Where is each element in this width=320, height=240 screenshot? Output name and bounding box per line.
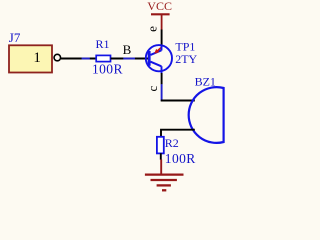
ground stem [160, 159, 162, 174]
wire collector down (black part) [161, 73, 163, 84]
ground bar 4 [162, 189, 166, 191]
svg-text:e: e [145, 26, 160, 32]
svg-text:100R: 100R [165, 151, 196, 166]
transistor TP1 base bar [148, 51, 151, 66]
wire segment (blue) left of R1 [82, 58, 90, 60]
ground bar 2 [151, 179, 177, 181]
svg-text:J7: J7 [9, 30, 21, 45]
svg-text:2TY: 2TY [175, 52, 197, 66]
transistor TP1 collector diagonal [151, 62, 162, 67]
power port VCC bar [151, 13, 170, 15]
wire R2 to ground [160, 153, 162, 160]
buzzer BZ1 body [189, 87, 224, 143]
resistor R2 body [157, 137, 164, 154]
svg-text:VCC: VCC [147, 0, 172, 13]
wire collector down (blue part) [161, 84, 163, 101]
transistor TP1 emitter pin stub [161, 44, 163, 50]
svg-text:c: c [145, 86, 160, 92]
transistor TP1 emitter arrow (PNP, red) [157, 48, 161, 51]
resistor R1 body [96, 55, 110, 61]
svg-text:R1: R1 [96, 37, 110, 51]
ground bar 3 [157, 184, 171, 186]
transistor collector pin stub [161, 66, 163, 73]
svg-text:100R: 100R [92, 62, 123, 77]
transistor TP1 emitter diagonal [151, 50, 162, 55]
svg-text:B: B [123, 42, 132, 57]
wire J7 to R1 [61, 58, 96, 60]
wire corner to buzzer top pin [161, 100, 195, 102]
wire R1 to transistor base [111, 58, 148, 60]
ground bar 1 [145, 173, 184, 175]
power port VCC stem [161, 14, 163, 29]
transistor TP1 circle [146, 45, 172, 71]
svg-text:R2: R2 [165, 136, 179, 150]
svg-text:1: 1 [33, 50, 41, 66]
connector J7 body [9, 45, 52, 72]
connector J7 pin open circle [54, 54, 61, 61]
wire segment (blue) at net label B [123, 58, 135, 60]
wire buzzer bottom to R2 [161, 130, 195, 137]
wire emitter to VCC stem [161, 29, 163, 46]
